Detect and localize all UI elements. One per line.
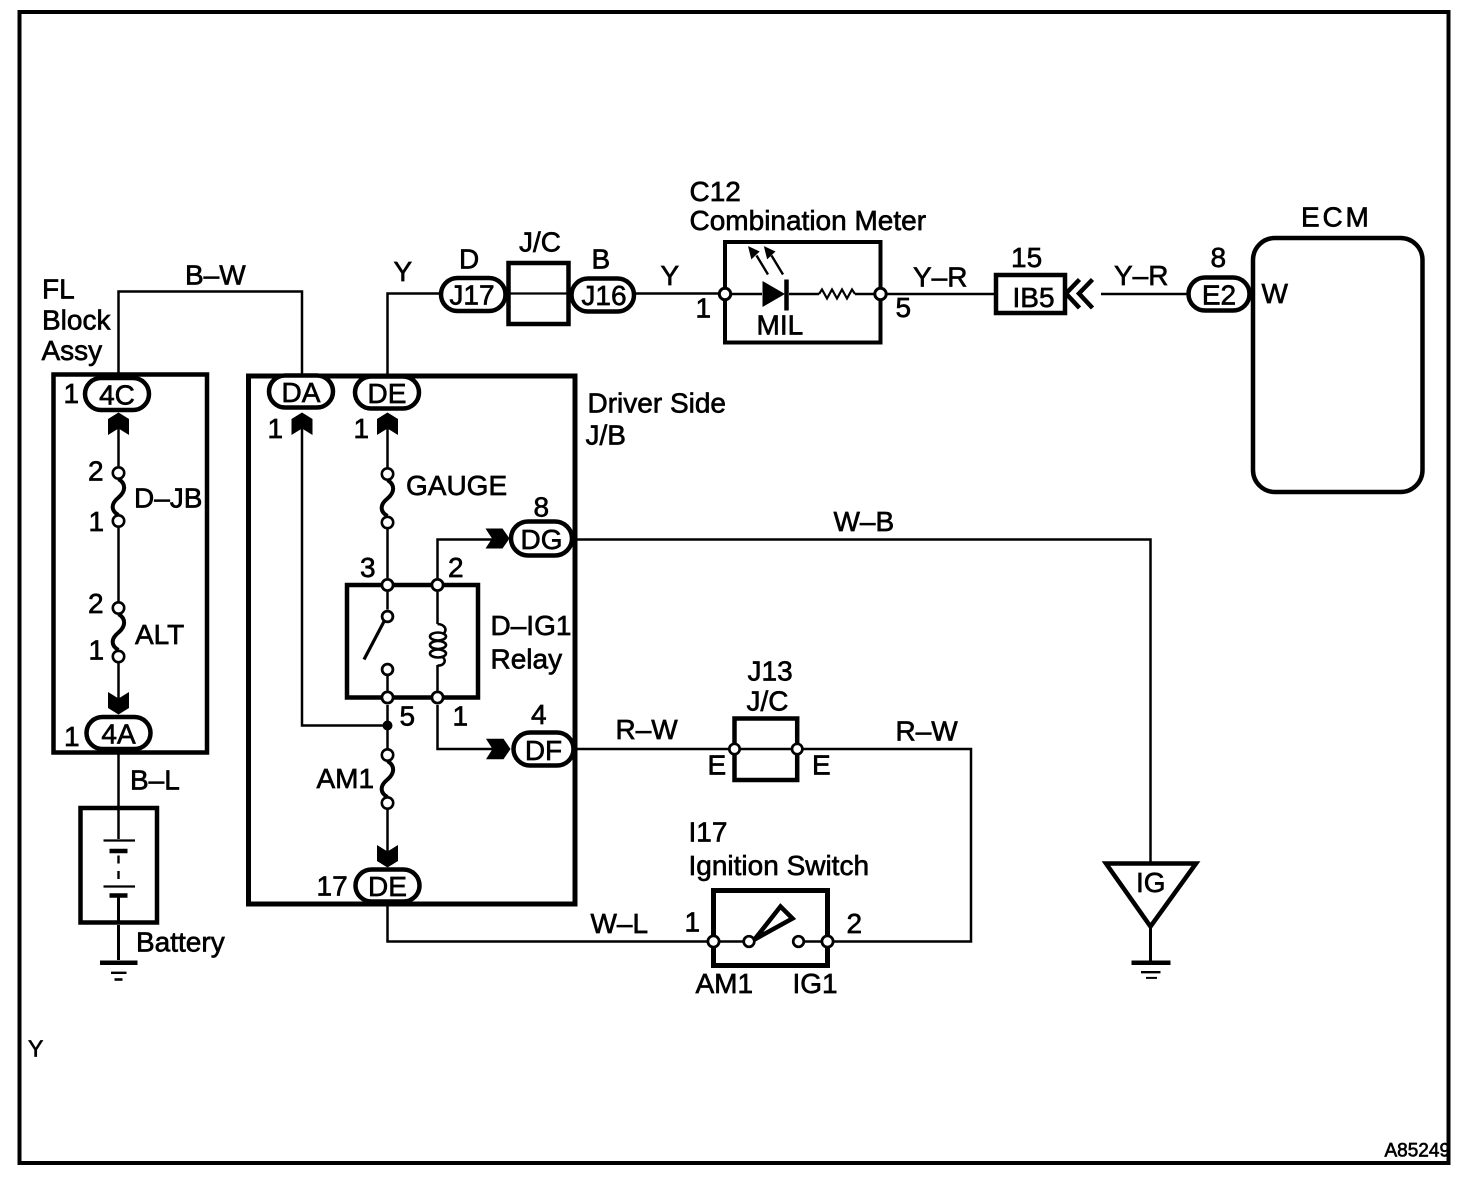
- switch pin2 node: [822, 936, 833, 947]
- svg-text:1: 1: [268, 413, 284, 444]
- wire GAUGE fuse to relay pin3: [386, 529, 389, 579]
- svg-text:1: 1: [354, 413, 370, 444]
- LED cathode bar: [784, 280, 789, 311]
- svg-text:1: 1: [453, 701, 469, 732]
- svg-text:MIL: MIL: [757, 310, 804, 341]
- svg-text:GAUGE: GAUGE: [406, 470, 507, 501]
- combination meter C12 box: [725, 242, 881, 343]
- branch arrow up below 4C: [108, 413, 129, 436]
- fuse AM1: [382, 749, 394, 808]
- battery cell dashes: [117, 856, 119, 887]
- svg-text:2: 2: [448, 552, 464, 583]
- svg-text:AM1: AM1: [317, 763, 375, 794]
- resistor in meter: [819, 290, 855, 299]
- wire IG apex to ground: [1149, 926, 1152, 961]
- switch inner contact right: [793, 936, 804, 947]
- relay switch contacts: [382, 611, 393, 622]
- svg-text:Block: Block: [42, 305, 111, 336]
- wire DA down to junction: [302, 428, 384, 726]
- svg-text:17: 17: [317, 871, 348, 902]
- connector J16: [572, 279, 635, 312]
- connector DE bottom: [356, 870, 420, 902]
- svg-text:2: 2: [88, 588, 104, 619]
- J13 node right: [792, 744, 802, 754]
- svg-text:15: 15: [1011, 242, 1042, 273]
- wire inside J13: [734, 748, 797, 751]
- svg-text:IG: IG: [1136, 867, 1166, 898]
- connector J17: [441, 278, 506, 311]
- LED light arrow 1: [750, 248, 768, 274]
- svg-text:Driver Side: Driver Side: [588, 388, 726, 419]
- branch arrow right before DF: [486, 739, 511, 760]
- svg-text:5: 5: [896, 292, 912, 323]
- meter node 5: [875, 288, 886, 299]
- svg-text:D: D: [459, 244, 479, 275]
- connector E2: [1189, 278, 1250, 311]
- relay pin nodes: [382, 579, 443, 703]
- FL Block Assy box: [54, 375, 208, 753]
- wire Y from DE top up and right to J17: [388, 294, 443, 376]
- wire battery to ground: [117, 925, 120, 960]
- svg-text:Relay: Relay: [491, 644, 563, 675]
- wire inside J/C top box: [508, 292, 569, 294]
- svg-text:1: 1: [696, 293, 712, 324]
- relay coil: [430, 624, 446, 666]
- wire AM1 fuse to DE bottom arrow: [386, 809, 389, 852]
- connector 4A: [87, 717, 151, 749]
- svg-text:J/B: J/B: [586, 420, 626, 451]
- branch arrow up below DA: [292, 413, 313, 436]
- fuse ALT: [113, 602, 125, 662]
- svg-text:W–B: W–B: [834, 506, 895, 537]
- svg-text:Y: Y: [661, 260, 680, 291]
- wire relay pin3 to contact: [386, 592, 389, 610]
- wire switch pin1 to contact: [720, 940, 743, 943]
- svg-text:IB5: IB5: [1013, 282, 1055, 313]
- svg-text:E: E: [812, 750, 831, 781]
- wire R-W J13 to down to switch pin2: [799, 749, 971, 942]
- J13 J/C junction box: [735, 719, 798, 781]
- wire D-JB fuse to ALT fuse: [117, 528, 120, 602]
- I17 ignition switch box: [714, 891, 828, 966]
- svg-text:Battery: Battery: [136, 927, 225, 958]
- svg-text:J16: J16: [581, 280, 626, 311]
- svg-text:E2: E2: [1202, 280, 1236, 311]
- wire coil bottom to pin1: [436, 665, 439, 691]
- svg-text:2: 2: [847, 908, 863, 939]
- svg-text:1: 1: [64, 378, 80, 409]
- svg-text:Ignition Switch: Ignition Switch: [689, 850, 870, 881]
- svg-text:B–L: B–L: [130, 765, 180, 796]
- svg-text:4A: 4A: [101, 719, 136, 750]
- relay switch blade: [364, 622, 384, 660]
- battery plate short thick bottom: [110, 893, 128, 898]
- LED MIL triangle: [763, 281, 786, 307]
- wire battery bottom plate to box: [117, 898, 120, 924]
- svg-text:Y: Y: [28, 1036, 43, 1062]
- wire Y-R meter to IB5: [887, 293, 994, 296]
- svg-text:J13: J13: [748, 656, 793, 687]
- svg-text:8: 8: [1211, 242, 1227, 273]
- svg-text:DE: DE: [368, 871, 407, 902]
- branch arrow right before DG: [486, 529, 510, 549]
- connector DG: [511, 522, 572, 556]
- svg-text:1: 1: [64, 721, 80, 752]
- connector DF: [514, 733, 574, 766]
- svg-text:J17: J17: [449, 280, 494, 311]
- IB5 block box: [996, 275, 1065, 313]
- svg-text:W: W: [1262, 278, 1289, 309]
- battery ground: [100, 963, 138, 980]
- junction dot: [383, 721, 393, 731]
- branch arrow up below DE: [377, 413, 398, 436]
- connector DA: [269, 376, 333, 408]
- svg-text:DF: DF: [525, 735, 562, 766]
- svg-text:IG1: IG1: [793, 968, 838, 999]
- svg-text:R–W: R–W: [896, 716, 959, 747]
- LED light arrow 2: [766, 248, 783, 274]
- switch pin1 node: [708, 936, 719, 947]
- svg-text:J/C: J/C: [519, 227, 561, 258]
- svg-text:8: 8: [534, 492, 550, 523]
- wire DE arrow to GAUGE fuse: [386, 428, 389, 468]
- svg-text:ALT: ALT: [135, 619, 184, 650]
- svg-text:DE: DE: [368, 378, 407, 409]
- svg-text:5: 5: [400, 701, 416, 732]
- meter node 1: [719, 288, 730, 299]
- svg-text:ECM: ECM: [1301, 202, 1372, 233]
- svg-text:Y–R: Y–R: [1114, 260, 1168, 291]
- connector 4C: [85, 378, 149, 410]
- wire relay pin5 to AM1 fuse through junction: [386, 705, 389, 749]
- wire meter node1 to LED: [731, 293, 762, 296]
- svg-text:DA: DA: [282, 377, 321, 408]
- wire B-W from 4C up over to DA: [119, 292, 303, 378]
- J13 node left: [729, 744, 739, 754]
- switch inner contact left: [744, 936, 755, 947]
- svg-text:3: 3: [360, 552, 376, 583]
- svg-text:4C: 4C: [99, 380, 135, 411]
- wire resistor to meter node5: [855, 293, 875, 296]
- svg-text:B: B: [592, 244, 611, 275]
- IB5 double chevron: [1066, 280, 1093, 309]
- svg-text:Y–R: Y–R: [913, 262, 967, 293]
- svg-text:Y: Y: [394, 256, 413, 287]
- svg-text:DG: DG: [521, 524, 563, 555]
- svg-text:D–JB: D–JB: [134, 483, 202, 514]
- wire 4A to battery: [117, 753, 120, 807]
- branch arrow down above 4A: [108, 692, 129, 715]
- connector DE top: [355, 377, 419, 409]
- wire relay pin2 to coil top: [436, 592, 439, 624]
- svg-text:E: E: [708, 750, 727, 781]
- IG ground: [1132, 963, 1171, 978]
- svg-text:Assy: Assy: [42, 335, 103, 366]
- wire relay pin1 down to DF arrow: [438, 705, 494, 749]
- wire LED to resistor: [789, 293, 819, 296]
- wire battery top plate: [117, 808, 120, 839]
- svg-text:1: 1: [685, 907, 701, 938]
- svg-text:1: 1: [89, 506, 105, 537]
- battery plate short thick top: [110, 849, 128, 854]
- svg-text:B–W: B–W: [185, 260, 246, 291]
- J/C junction box top: [509, 263, 569, 324]
- battery box: [81, 808, 158, 923]
- IG ground triangle: [1106, 864, 1196, 927]
- wire relay lower contact to pin5: [386, 676, 389, 691]
- fuse D-JB: [113, 467, 125, 526]
- svg-text:FL: FL: [42, 274, 75, 305]
- battery plate long top: [104, 839, 136, 841]
- svg-text:D–IG1: D–IG1: [491, 610, 572, 641]
- svg-text:R–W: R–W: [616, 714, 679, 745]
- battery plate long bottom: [104, 885, 136, 887]
- svg-text:A85249: A85249: [1385, 1141, 1451, 1162]
- Driver Side J/B box: [249, 376, 576, 904]
- wire W-L DE bottom to switch pin1: [388, 903, 708, 942]
- wire J16 to meter node 1: [636, 292, 719, 295]
- svg-text:AM1: AM1: [696, 968, 754, 999]
- fuse GAUGE: [382, 468, 394, 528]
- branch arrow down above DE bottom: [377, 845, 398, 868]
- wire ALT fuse to arrow 4A: [117, 663, 120, 700]
- D-IG1 relay box: [347, 585, 478, 698]
- wire W-B from DG to IG triangle: [572, 540, 1151, 862]
- wire Y-R chevrons to E2: [1101, 293, 1190, 296]
- svg-text:2: 2: [88, 456, 104, 487]
- svg-text:W–L: W–L: [591, 908, 649, 939]
- wire relay pin2 up and to DG arrow: [438, 540, 493, 579]
- wire R-W DF to J13: [573, 748, 732, 751]
- wire switch contact to pin2: [805, 940, 822, 943]
- svg-text:C12: C12: [690, 176, 741, 207]
- wire 4C down to D-JB fuse: [117, 428, 120, 466]
- svg-text:1: 1: [89, 635, 105, 666]
- switch lever: [755, 907, 793, 940]
- svg-text:J/C: J/C: [747, 686, 789, 717]
- svg-text:I17: I17: [689, 817, 728, 848]
- svg-text:4: 4: [531, 699, 547, 730]
- svg-text:Combination Meter: Combination Meter: [690, 205, 927, 236]
- ECM box: [1253, 238, 1423, 492]
